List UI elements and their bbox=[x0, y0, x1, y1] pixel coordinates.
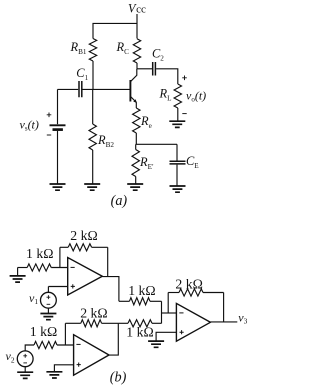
resistor RB1 bbox=[70, 39, 97, 62]
wire vs top lead bbox=[57, 89, 59, 124]
wire op1 fb left bbox=[59, 247, 61, 267]
resistor RE' bbox=[132, 150, 154, 177]
ground v1 bbox=[40, 314, 56, 320]
wire C1 to base bbox=[83, 88, 131, 90]
svg-text:Vcc: Vcc bbox=[128, 1, 146, 15]
wire vs to C1 bbox=[58, 88, 79, 90]
wire op2 output bbox=[109, 323, 118, 355]
ground RL bbox=[169, 121, 185, 127]
wire emitter node row bbox=[136, 143, 177, 145]
wire RE' to ground bbox=[135, 177, 137, 184]
resistor R2a 1k bbox=[30, 324, 74, 349]
wire v2 to ground bbox=[24, 367, 26, 372]
wire emitter lead bbox=[135, 102, 137, 108]
wire v1 to ground bbox=[47, 308, 49, 313]
wire collector row bbox=[137, 68, 152, 70]
ground v2 bbox=[17, 372, 33, 378]
label vo bbox=[182, 76, 206, 114]
wire supply rail bbox=[93, 23, 137, 38]
wire op3 minus lead bbox=[162, 312, 177, 314]
svg-text:2 kΩ: 2 kΩ bbox=[175, 276, 203, 291]
capacitor C1 bbox=[76, 66, 88, 97]
resistor RC bbox=[116, 39, 141, 63]
source v2 bbox=[6, 349, 34, 367]
wire op1 output bbox=[102, 277, 119, 302]
wire Re to node bbox=[135, 133, 137, 144]
svg-text:1 kΩ: 1 kΩ bbox=[128, 283, 156, 298]
resistor R1a 1k bbox=[18, 246, 68, 271]
resistor R3a 1k bbox=[119, 283, 162, 305]
ground op2 plus bbox=[46, 372, 62, 378]
wire op1 fb right bbox=[107, 247, 109, 276]
source v1 bbox=[29, 287, 68, 309]
svg-text:(a): (a) bbox=[111, 193, 128, 209]
ground RE' bbox=[127, 184, 143, 190]
resistor R2f 2k bbox=[65, 305, 118, 327]
wire RB1 to base node bbox=[92, 61, 94, 89]
ground CE bbox=[170, 186, 186, 192]
op-amp U2 bbox=[74, 335, 109, 376]
svg-text:1 kΩ: 1 kΩ bbox=[26, 246, 54, 261]
wire RC to collector bbox=[136, 63, 138, 69]
wire node to REp bbox=[135, 144, 137, 149]
svg-text:2 kΩ: 2 kΩ bbox=[80, 305, 108, 320]
wire Vcc stem bbox=[136, 14, 138, 39]
op-amp U3 bbox=[176, 303, 210, 341]
wire op3 output bbox=[210, 321, 237, 323]
wire summing junction bbox=[161, 301, 163, 323]
resistor RL bbox=[159, 84, 182, 108]
resistor R1f 2k bbox=[60, 228, 108, 251]
ground op1 input bbox=[17, 268, 19, 276]
wire CE top lead bbox=[176, 144, 178, 160]
wire CE to ground bbox=[176, 165, 178, 186]
wire RL to ground bbox=[177, 108, 179, 121]
resistor R3b 1k bbox=[118, 320, 161, 340]
svg-text:1 kΩ: 1 kΩ bbox=[30, 324, 58, 339]
ground op3 plus bbox=[148, 341, 164, 347]
resistor RB2 bbox=[89, 124, 114, 150]
wire v2 top lead bbox=[25, 345, 34, 351]
wire op3 plus lead bbox=[156, 332, 176, 341]
wire op3 fb right bbox=[223, 293, 225, 322]
op-amp U1 bbox=[68, 258, 103, 296]
wire base to RB2 bbox=[92, 89, 94, 124]
capacitor C2 bbox=[152, 47, 164, 76]
wire op2 plus lead bbox=[54, 365, 73, 372]
resistor Re bbox=[133, 108, 152, 133]
wire vs bottom lead bbox=[57, 131, 59, 184]
ground vs bbox=[50, 184, 66, 190]
transistor Q1 bbox=[130, 69, 137, 103]
wire C2 to RL bbox=[156, 69, 178, 84]
source vs battery bbox=[47, 113, 66, 136]
wire op3 fb left bbox=[167, 293, 169, 314]
resistor R3f 2k bbox=[168, 276, 223, 296]
svg-text:(b): (b) bbox=[110, 370, 127, 386]
svg-text:vo(t): vo(t) bbox=[186, 88, 206, 103]
svg-text:1 kΩ: 1 kΩ bbox=[126, 325, 154, 340]
svg-text:2 kΩ: 2 kΩ bbox=[70, 228, 98, 243]
svg-text:vs(t): vs(t) bbox=[20, 118, 39, 133]
ground RB2 bbox=[84, 184, 100, 190]
capacitor CE bbox=[170, 154, 200, 170]
wire RB2 to ground bbox=[92, 150, 94, 184]
wire op2 fb left bbox=[64, 323, 66, 345]
